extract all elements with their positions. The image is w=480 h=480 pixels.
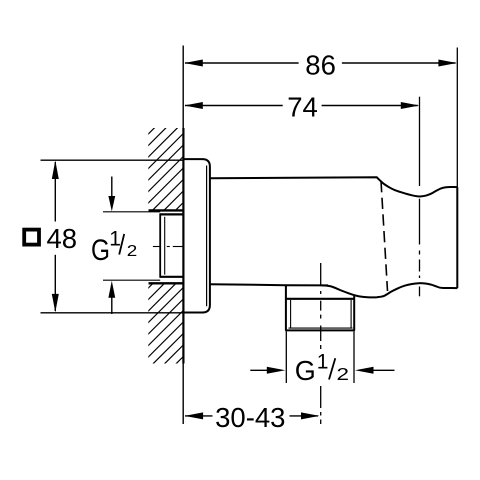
arrow G12 right <box>374 369 395 371</box>
svg-text:G: G <box>91 234 110 267</box>
svg-text:2: 2 <box>337 364 350 384</box>
svg-text:2: 2 <box>127 243 138 260</box>
svg-text:1: 1 <box>317 350 329 373</box>
outlet thread extension lines <box>285 332 287 384</box>
wall face line section <box>182 128 184 364</box>
wall face line lower (extension) <box>182 364 184 425</box>
extension line 48 bottom <box>41 312 184 314</box>
extension line 48 top <box>41 159 184 161</box>
arrow 30-43 left <box>185 412 204 419</box>
arrow G12 left <box>250 369 268 371</box>
holder cone centerline x=419.5 <box>419 97 421 297</box>
escutcheon flange <box>183 159 210 312</box>
outlet nipple G 1/2 <box>285 285 355 330</box>
dimension 86 <box>185 62 456 64</box>
svg-text:1: 1 <box>109 227 121 250</box>
arrow 48 down <box>52 294 59 313</box>
arrow 86 left <box>184 60 203 67</box>
wall opening bottom edge <box>149 282 184 284</box>
body bottom line <box>210 284 328 285</box>
dimension line 48 <box>54 162 56 311</box>
escutcheon inner edge line <box>206 166 208 307</box>
svg-text:86: 86 <box>305 49 336 80</box>
arrow 74 left <box>184 102 203 109</box>
holder right face <box>456 187 458 288</box>
inlet extension line top <box>103 211 160 213</box>
svg-text:G: G <box>295 355 316 386</box>
svg-text:74: 74 <box>287 91 318 122</box>
dimension 74 <box>185 105 418 107</box>
arrow 48 up <box>52 161 59 180</box>
small arrow up (inlet bottom) <box>111 297 113 314</box>
hidden cone edge (dashed) <box>381 181 388 291</box>
outlet centerline (dash-dot vertical x=320.7) <box>320 263 322 424</box>
inlet extension line bottom <box>103 279 160 281</box>
svg-text:30-43: 30-43 <box>215 402 285 433</box>
body top contour <box>210 177 457 196</box>
wall opening top edge <box>149 209 184 211</box>
body bottom right S-curve <box>322 283 457 297</box>
small arrow down (inlet top) <box>111 177 113 198</box>
inlet nipple behind wall (G 1/2 female) <box>160 213 184 277</box>
square symbol <box>24 230 39 245</box>
wall hatching lower block <box>145 250 186 406</box>
wall hatching upper block <box>145 96 186 252</box>
wall face line upper (extension) <box>182 46 184 129</box>
arrow 86 right <box>438 60 457 67</box>
arrow 74 right <box>401 102 420 109</box>
dimension 30-43 <box>185 415 318 417</box>
arrow 30-43 right <box>301 412 320 419</box>
extension line 86 right <box>456 48 458 188</box>
svg-text:48: 48 <box>47 223 78 254</box>
inlet centerline <box>153 246 184 248</box>
